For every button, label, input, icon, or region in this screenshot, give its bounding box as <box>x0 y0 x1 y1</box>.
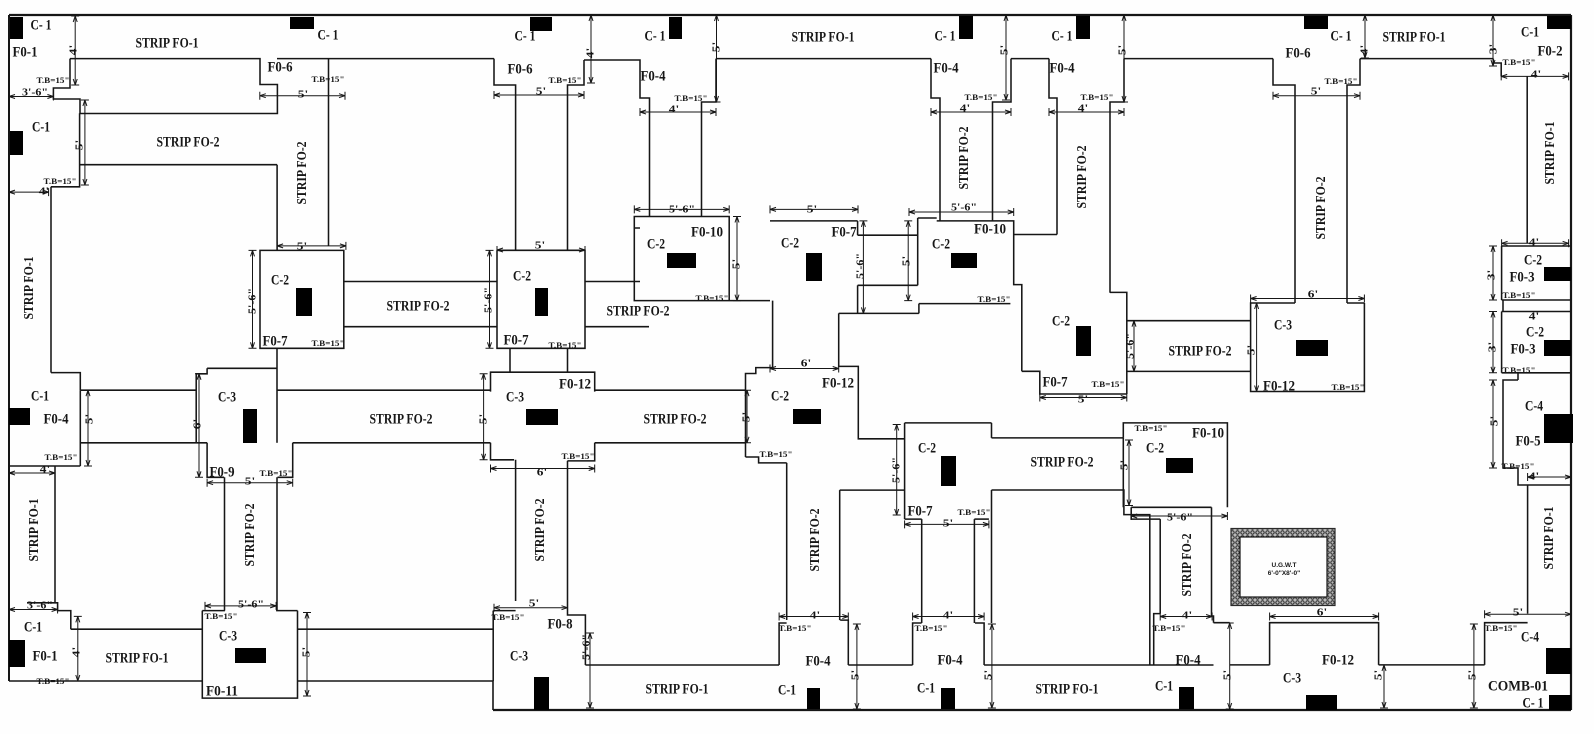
svg-text:5': 5' <box>245 476 255 488</box>
column C-1 <box>290 17 314 29</box>
wire strip FO-2 bottom b <box>585 326 649 328</box>
strip D right <box>276 477 278 610</box>
svg-text:4': 4' <box>810 610 820 622</box>
svg-text:C-2: C-2 <box>781 235 799 251</box>
svg-text:T.B=15": T.B=15" <box>1081 93 1114 102</box>
svg-text:5': 5' <box>1078 394 1088 406</box>
footing COMB-01 <box>1485 623 1528 665</box>
strip right lower inner <box>1527 485 1529 614</box>
svg-text:4': 4' <box>1359 45 1371 55</box>
dim 5' c2r v <box>907 221 909 301</box>
svg-text:T.B=15": T.B=15" <box>44 177 77 186</box>
wire C2r bottom <box>919 303 1011 305</box>
wire strip FO-2 top <box>344 281 497 283</box>
dim 4' f04-1 <box>640 111 716 113</box>
wire right strip inner <box>1526 76 1528 243</box>
dim 5'-6 c2ll v <box>896 425 898 516</box>
svg-text:F0-1: F0-1 <box>33 648 58 664</box>
dim 5' v2 <box>716 15 718 102</box>
dim 4' v5 <box>1364 15 1366 58</box>
column C-2 <box>535 288 548 316</box>
footing F0-4 #3 left <box>1049 59 1057 235</box>
footing F0-10 #1 <box>634 217 649 229</box>
dim 6' c33 <box>1251 298 1365 300</box>
footing F0-12 bottom <box>1270 623 1379 665</box>
dim 6' central <box>770 368 839 370</box>
wire c2ll shelf low <box>840 489 905 491</box>
column C-1 <box>1549 695 1571 710</box>
svg-text:4': 4' <box>585 48 597 58</box>
wire mid band top b <box>277 389 491 391</box>
svg-text:F0-4: F0-4 <box>938 652 963 668</box>
svg-text:COMB-01: COMB-01 <box>1488 678 1548 694</box>
wire bottom band top a <box>71 628 203 630</box>
node rc step <box>1502 300 1504 312</box>
svg-text:T.B=15": T.B=15" <box>549 341 582 350</box>
svg-text:5'-6": 5'-6" <box>483 287 495 313</box>
svg-text:C-2: C-2 <box>771 388 789 404</box>
wire bottom band right <box>1230 664 1270 666</box>
node neck <box>746 301 773 457</box>
svg-text:C-2: C-2 <box>1052 313 1070 329</box>
dim 5' f04ml <box>87 390 89 466</box>
footing C-4/F0-5 <box>1503 380 1571 485</box>
column C-1 <box>807 688 820 709</box>
strip FO-2 below F0-6 right <box>328 59 330 246</box>
column C-1 <box>9 640 25 667</box>
wire f04 left bottom <box>9 465 80 467</box>
column C-2 <box>941 456 956 486</box>
svg-text:5'-6": 5'-6" <box>238 599 264 611</box>
column C-1 <box>1304 16 1328 29</box>
wire c2c shelf b <box>858 284 918 286</box>
wire f07l bottom b <box>974 518 989 520</box>
svg-text:5': 5' <box>850 670 862 680</box>
svg-text:F0-4: F0-4 <box>44 411 69 427</box>
dim 4' step left <box>9 191 49 193</box>
footing C-2/F0-10 #2 <box>937 221 1022 371</box>
footing F0-3 #1 <box>1501 246 1503 300</box>
footing F0-6 #3 right <box>1347 59 1360 303</box>
column C-3 <box>534 677 549 710</box>
svg-text:3': 3' <box>1487 342 1499 352</box>
dim 5' comb <box>1485 613 1571 615</box>
svg-text:C-3: C-3 <box>1274 317 1292 333</box>
dim 5' f011 v <box>306 613 308 697</box>
svg-text:C-3: C-3 <box>218 389 236 405</box>
svg-text:C-4: C-4 <box>1525 398 1543 414</box>
node central right edge <box>839 313 905 438</box>
svg-text:F0-3: F0-3 <box>1510 269 1535 285</box>
dim 5' f09 <box>207 482 293 484</box>
column C-2 <box>296 288 312 316</box>
strip A2 left <box>54 466 56 603</box>
wire top band <box>1011 58 1049 60</box>
footing C-3 #2 <box>491 372 595 391</box>
column C-1 <box>941 688 955 709</box>
svg-text:T.B=15": T.B=15" <box>205 612 238 621</box>
column C-2 <box>806 253 822 281</box>
svg-text:5': 5' <box>1513 607 1523 619</box>
wire y313 <box>839 312 919 314</box>
dim 4' f04br <box>1160 616 1212 618</box>
wire mid band bot c <box>595 442 746 444</box>
svg-text:5': 5' <box>999 45 1011 55</box>
dim 5' f012b v <box>1383 665 1385 708</box>
column C-1 <box>530 17 552 31</box>
svg-text:C-2: C-2 <box>647 236 665 252</box>
column C-1 <box>1547 16 1571 29</box>
svg-text:STRIP FO-1: STRIP FO-1 <box>27 499 42 562</box>
footing F0-6 #1 <box>53 59 277 114</box>
column C-2 <box>667 253 696 268</box>
wire c33 top <box>1347 302 1364 304</box>
svg-text:5'-6": 5'-6" <box>247 288 259 314</box>
svg-text:STRIP FO-2: STRIP FO-2 <box>1180 534 1195 597</box>
column C-1 <box>1076 16 1090 39</box>
svg-text:3': 3' <box>1486 270 1498 280</box>
svg-text:C-2: C-2 <box>271 272 289 288</box>
svg-text:C-2: C-2 <box>1526 324 1544 340</box>
dim 5'-6 c2c v <box>862 221 864 314</box>
dim 5' f04bl v <box>856 624 858 709</box>
dim 5' c33 v <box>1256 303 1258 392</box>
dim 5'-6 f08 v <box>589 633 591 708</box>
svg-text:T.B=15": T.B=15" <box>760 450 793 459</box>
svg-text:STRIP FO-2: STRIP FO-2 <box>243 504 258 567</box>
svg-text:4': 4' <box>68 45 80 55</box>
wire band left <box>80 164 278 166</box>
border bottom step <box>492 681 494 710</box>
footing F0-2 <box>1493 59 1501 77</box>
dim 5'-6 c22 <box>489 250 491 348</box>
svg-text:5': 5' <box>298 89 308 101</box>
svg-text:F0-10: F0-10 <box>1192 425 1224 441</box>
column C-3 <box>1296 340 1328 356</box>
dim 3' rc1 <box>1492 246 1494 300</box>
wire f07l bottom <box>905 518 922 520</box>
strip D left <box>224 477 226 610</box>
svg-text:T.B=15": T.B=15" <box>37 677 70 686</box>
dim 3' rc2 <box>1492 312 1494 373</box>
svg-text:F0-12: F0-12 <box>559 376 591 392</box>
svg-text:STRIP FO-2: STRIP FO-2 <box>607 303 670 319</box>
dim 5' f07u <box>1040 397 1127 399</box>
svg-text:5': 5' <box>943 518 953 530</box>
svg-text:3': 3' <box>1488 44 1500 54</box>
svg-text:5': 5' <box>1117 45 1129 55</box>
dim 5' f010-1 v <box>736 217 738 301</box>
svg-text:STRIP FO-2: STRIP FO-2 <box>1075 146 1090 209</box>
svg-text:F0-5: F0-5 <box>1516 433 1541 449</box>
dim 4' left <box>74 16 76 85</box>
wire c31 top <box>207 367 277 369</box>
column C-3 <box>526 409 558 425</box>
svg-text:T.B=15": T.B=15" <box>1503 291 1536 300</box>
svg-text:5': 5' <box>1222 670 1234 680</box>
node connector4 <box>567 348 569 372</box>
svg-text:C-3: C-3 <box>506 389 524 405</box>
dim 5'-6 c21 <box>252 250 254 348</box>
wire c2c shelf a <box>858 234 918 236</box>
dim 5' f07l <box>905 523 989 525</box>
svg-text:C-1: C-1 <box>778 682 796 698</box>
strip F right <box>1211 507 1213 616</box>
svg-text:5': 5' <box>84 414 96 424</box>
border right <box>1570 15 1572 710</box>
svg-text:STRIP FO-1: STRIP FO-1 <box>136 35 199 51</box>
border bottom <box>493 709 1571 711</box>
footing C-2 lower-left <box>904 423 906 519</box>
wire rc2 top <box>1502 311 1571 313</box>
svg-text:T.B=15": T.B=15" <box>312 339 345 348</box>
column C-1 <box>10 131 23 155</box>
footing big left edge <box>991 490 993 623</box>
svg-text:F0-4: F0-4 <box>934 60 959 76</box>
dim 4' v1 <box>590 15 592 83</box>
svg-text:STRIP FO-1: STRIP FO-1 <box>1542 507 1557 570</box>
svg-text:5': 5' <box>1246 345 1258 355</box>
svg-text:5': 5' <box>478 414 490 424</box>
column C-2 <box>793 409 821 424</box>
svg-text:C- 1: C- 1 <box>31 17 52 33</box>
wire mid band bot a <box>80 442 207 444</box>
wire f010-2 box bottom <box>1014 234 1057 236</box>
svg-text:F0-12: F0-12 <box>822 375 854 391</box>
footing F0-4 bl right <box>840 620 848 665</box>
footing F0-10 #1 right <box>702 217 730 301</box>
footing F0-11 <box>202 611 297 699</box>
svg-text:F0-10: F0-10 <box>691 224 723 240</box>
dim 4' f04bl <box>779 616 848 618</box>
svg-text:STRIP FO-1: STRIP FO-1 <box>22 257 37 320</box>
wire rc1 top <box>1502 245 1571 247</box>
svg-text:F0-6: F0-6 <box>1286 45 1311 61</box>
wire mid band bot b <box>293 442 491 444</box>
svg-text:C-2: C-2 <box>1146 440 1164 456</box>
node c2c right edge b <box>857 285 859 314</box>
svg-text:C-1: C-1 <box>1155 678 1173 694</box>
svg-text:T.B=15": T.B=15" <box>1153 624 1186 633</box>
svg-text:5'-6": 5'-6" <box>951 202 977 214</box>
dim 5' mid1 <box>746 390 748 443</box>
svg-text:5': 5' <box>1311 86 1321 98</box>
column C-2 <box>1166 458 1193 473</box>
footing F0-3 #2 <box>1501 312 1503 373</box>
wire bottom band mid top3 <box>984 664 1213 666</box>
wire rc2 bot <box>1502 372 1571 374</box>
svg-text:5': 5' <box>1489 416 1501 426</box>
svg-text:4': 4' <box>1529 311 1539 323</box>
svg-text:F0-4: F0-4 <box>1050 60 1075 76</box>
node band left step <box>51 113 80 187</box>
wire mid band top a <box>80 389 196 391</box>
footing C-2/F0-7 #2 <box>497 250 585 348</box>
footing F0-4 #1 right <box>702 59 717 217</box>
dim 5' c22 <box>497 249 585 251</box>
svg-text:5': 5' <box>807 204 817 216</box>
dim 5' c2c <box>770 208 858 210</box>
node strip F step <box>1212 616 1214 623</box>
dim 5' v4 <box>1123 15 1125 102</box>
svg-text:4': 4' <box>1529 237 1539 249</box>
svg-text:T.B=15": T.B=15" <box>779 624 812 633</box>
dim 4' rc1t <box>1502 242 1569 244</box>
footing F0-4 bottom-left <box>779 623 787 665</box>
wire f011 top l <box>202 610 225 612</box>
svg-text:C-1: C-1 <box>24 619 42 635</box>
svg-text:STRIP FO-1: STRIP FO-1 <box>1383 29 1446 45</box>
column C-2 <box>951 253 977 268</box>
wire f011 top r <box>276 610 297 612</box>
node f010l left edge <box>1122 438 1124 507</box>
svg-text:5': 5' <box>741 412 753 422</box>
dim 5' f04bm v <box>991 624 993 708</box>
svg-text:C-2: C-2 <box>932 236 950 252</box>
svg-text:5'-6": 5'-6" <box>891 457 903 483</box>
wire top band <box>1360 58 1493 60</box>
svg-text:5': 5' <box>711 42 723 52</box>
svg-text:F0-4: F0-4 <box>806 653 831 669</box>
node connector3 <box>509 348 511 372</box>
dim 4' f04ml b <box>9 472 55 474</box>
svg-text:STRIP FO-1: STRIP FO-1 <box>106 650 169 666</box>
svg-text:T.B=15": T.B=15" <box>958 508 991 517</box>
svg-text:6': 6' <box>537 467 547 479</box>
wire rc1 bot <box>1502 299 1571 301</box>
svg-text:4': 4' <box>1078 103 1088 115</box>
svg-text:F0-7: F0-7 <box>1043 374 1068 390</box>
footing C-2/F0-7 #1 <box>260 165 344 348</box>
svg-text:STRIP FO-1: STRIP FO-1 <box>792 29 855 45</box>
column C-2 <box>1544 267 1571 281</box>
svg-text:STRIP FO-2: STRIP FO-2 <box>1314 177 1329 240</box>
svg-text:F0-6: F0-6 <box>508 61 533 77</box>
svg-text:C- 1: C- 1 <box>935 28 956 44</box>
svg-text:F0-7: F0-7 <box>263 333 288 349</box>
dim 5'-6 c2r <box>909 211 1014 213</box>
footing F0-4 #1 <box>584 60 650 217</box>
node f010l step <box>1131 507 1160 519</box>
svg-text:5'-6": 5'-6" <box>855 253 867 279</box>
column C-1 <box>9 408 30 425</box>
svg-text:STRIP FO-1: STRIP FO-1 <box>1543 122 1558 185</box>
svg-text:5': 5' <box>1373 670 1385 680</box>
dim 5'-6 f010l <box>1131 515 1227 517</box>
svg-text:5': 5' <box>536 86 546 98</box>
svg-text:C-3: C-3 <box>219 628 237 644</box>
svg-text:F0-10: F0-10 <box>974 221 1006 237</box>
svg-text:T.B=15": T.B=15" <box>37 76 70 85</box>
svg-text:U.G.W.T: U.G.W.T <box>1272 562 1297 569</box>
svg-text:F0-2: F0-2 <box>1538 43 1563 59</box>
svg-text:F0-6: F0-6 <box>268 59 293 75</box>
strip C right <box>839 490 841 620</box>
dim 4' f04-3 <box>1049 111 1124 113</box>
dim 4' f04bm <box>913 616 985 618</box>
svg-text:5': 5' <box>731 259 743 269</box>
svg-text:F0-7: F0-7 <box>504 332 529 348</box>
svg-text:3'-6": 3'-6" <box>22 87 48 99</box>
svg-text:F0-3: F0-3 <box>1511 341 1536 357</box>
dim 5' f04br v <box>1229 623 1231 709</box>
svg-text:T.B=15": T.B=15" <box>696 294 729 303</box>
column C-1 <box>10 17 23 39</box>
svg-text:T.B=15": T.B=15" <box>260 469 293 478</box>
svg-text:C- 1: C- 1 <box>318 27 339 43</box>
svg-text:F0-12: F0-12 <box>1322 652 1354 668</box>
svg-text:STRIP FO-2: STRIP FO-2 <box>808 509 823 572</box>
column C-2 <box>1076 326 1091 356</box>
svg-text:STRIP FO-1: STRIP FO-1 <box>646 681 709 697</box>
footing F0-6 #2 right <box>568 60 585 250</box>
svg-text:3'-6": 3'-6" <box>27 600 53 612</box>
dim 4' bl v <box>77 616 79 681</box>
dim 5' rc3 <box>1492 380 1494 468</box>
strip F left <box>1159 519 1161 614</box>
strip B low right <box>567 461 569 601</box>
node c2r notch edge <box>917 218 919 285</box>
svg-text:T.B=15": T.B=15" <box>1485 624 1518 633</box>
wire strip FO-2 top b <box>585 281 640 283</box>
svg-text:STRIP FO-2: STRIP FO-2 <box>1169 343 1232 359</box>
svg-text:C-2: C-2 <box>918 440 936 456</box>
svg-text:F0-7: F0-7 <box>908 503 933 519</box>
svg-text:5'-6": 5'-6" <box>669 204 695 216</box>
wire band mr top <box>1127 320 1251 322</box>
svg-text:4': 4' <box>40 464 50 476</box>
footing F0-4 big right <box>992 490 1150 665</box>
strip E left <box>921 519 923 623</box>
column C-1 <box>959 16 973 39</box>
svg-text:F0-1: F0-1 <box>13 44 38 60</box>
svg-text:C-3: C-3 <box>1283 670 1301 686</box>
dim 5'-6 c26 v <box>1133 321 1135 372</box>
column C-3 <box>235 648 266 663</box>
svg-text:T.B=15": T.B=15" <box>312 75 345 84</box>
svg-text:STRIP FO-2: STRIP FO-2 <box>387 298 450 314</box>
wire c2ll top <box>905 422 992 424</box>
footing F0-7 upper <box>1022 371 1127 394</box>
svg-text:4': 4' <box>1182 610 1192 622</box>
svg-text:C-1: C-1 <box>32 119 50 135</box>
column C-3 <box>1306 695 1337 710</box>
border top <box>9 14 1571 16</box>
column C-1 <box>1179 687 1194 709</box>
footing F0-8 right <box>568 601 586 665</box>
svg-text:4': 4' <box>669 104 679 116</box>
svg-text:5': 5' <box>901 256 913 266</box>
node C2r step <box>918 304 920 314</box>
svg-text:4': 4' <box>39 186 49 198</box>
footing F0-6 #3 left <box>1273 59 1295 303</box>
svg-text:F0-8: F0-8 <box>548 616 573 632</box>
svg-text:5': 5' <box>1119 460 1131 470</box>
svg-text:C-1: C-1 <box>917 680 935 696</box>
svg-text:F0-4: F0-4 <box>1176 652 1201 668</box>
svg-text:5'-6": 5'-6" <box>1125 333 1137 359</box>
dim 5' f06-3 <box>1273 95 1360 97</box>
dim 6' f012b <box>1270 616 1379 618</box>
footing C-3 #3 body <box>1251 303 1365 392</box>
dim 5' f06-2 <box>494 94 584 96</box>
footing F0-10 #1 body <box>634 228 770 301</box>
svg-text:T.B=15": T.B=15" <box>1332 383 1365 392</box>
svg-text:STRIP FO-2: STRIP FO-2 <box>157 134 220 150</box>
dim 5' comb v <box>1473 624 1475 708</box>
svg-text:T.B=15": T.B=15" <box>562 452 595 461</box>
footing C-3 #2 low <box>491 443 515 460</box>
